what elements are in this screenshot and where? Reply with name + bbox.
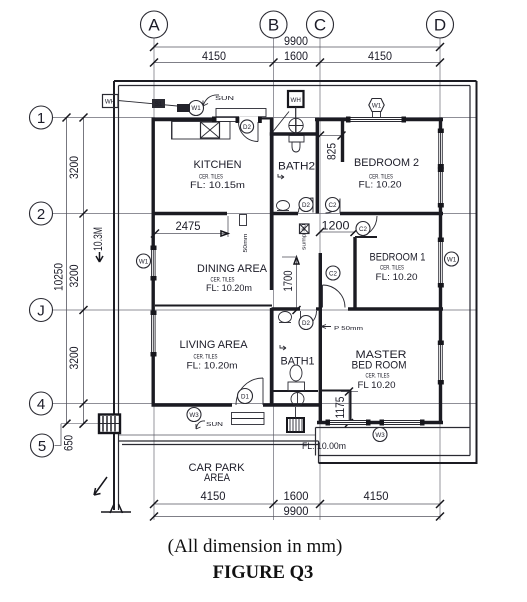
- grid bubble 2: [30, 202, 53, 225]
- wall stub bedroom1 top: [355, 236, 377, 238]
- master terrace slab edge: [316, 427, 471, 429]
- leader diagonal at bath2 recess: [271, 112, 289, 135]
- door D1 living entrance with arc: [236, 378, 263, 405]
- svg-text:CER. TILES: CER. TILES: [194, 354, 218, 361]
- bath1 floor drain circle: [291, 393, 304, 406]
- svg-text:5: 5: [38, 438, 46, 455]
- wall bath2 recessed top: [270, 132, 319, 135]
- svg-text:W3: W3: [189, 412, 199, 419]
- dimension line bottom 9900: [154, 516, 440, 518]
- svg-text:C2: C2: [329, 271, 337, 278]
- svg-text:W1: W1: [191, 105, 201, 112]
- svg-text:S1: S1: [155, 101, 163, 108]
- pipe label P 50mm with arrow: [321, 325, 363, 333]
- wall grid 2 kitchen bottom: [152, 212, 228, 215]
- svg-text:BEDROOM 1: BEDROOM 1: [370, 252, 426, 264]
- beam line dining/living: [155, 305, 272, 307]
- room KITCHEN: [190, 159, 245, 191]
- wall grid J bath1 top with door gap: [272, 307, 301, 310]
- outer boundary right double line: [476, 81, 478, 463]
- svg-text:W1: W1: [139, 259, 149, 266]
- room DINING AREA: [197, 263, 268, 294]
- svg-text:825: 825: [327, 143, 339, 160]
- wall grid 2 bedroom2 bottom: [340, 212, 443, 215]
- window kitchen top wall with sill: [216, 109, 266, 123]
- svg-text:SUN: SUN: [206, 422, 224, 428]
- window tag W3 car porch: [187, 408, 201, 422]
- room BEDROOM 1: [370, 252, 426, 284]
- svg-text:4150: 4150: [364, 489, 389, 503]
- svg-text:W3: W3: [375, 432, 385, 439]
- window master right wall: [438, 345, 443, 380]
- bath2 heater circle: [289, 118, 303, 132]
- outer boundary bottom-right double line: [319, 462, 478, 464]
- svg-text:10250: 10250: [54, 263, 66, 291]
- SUN label bottom with arrow: [196, 421, 224, 429]
- window bedroom1 right wall: [438, 242, 443, 283]
- svg-text:B: B: [268, 16, 279, 35]
- svg-text:P 50mm: P 50mm: [334, 326, 363, 332]
- svg-text:LIVING AREA: LIVING AREA: [180, 339, 249, 351]
- kitchen sink tag circle W1: [189, 101, 204, 116]
- svg-text:DINING AREA: DINING AREA: [197, 263, 268, 275]
- grid line J horizontal: [53, 309, 476, 311]
- wall grid C vertical: [316, 119, 319, 214]
- svg-text:sump 40: sump 40: [302, 224, 308, 250]
- door C2 bedroom2 with arc: [326, 198, 341, 214]
- window tag W3 master terrace: [373, 428, 387, 442]
- svg-text:1175: 1175: [335, 397, 347, 419]
- window tag W1 bedroom1 right: [445, 252, 459, 266]
- window bedroom2 right wall lower: [438, 172, 443, 203]
- svg-text:FL: 10.20m: FL: 10.20m: [206, 283, 252, 294]
- svg-text:1600: 1600: [284, 49, 308, 63]
- svg-text:(All dimension in mm): (All dimension in mm): [168, 536, 343, 557]
- svg-text:SUN: SUN: [215, 96, 235, 102]
- wall stub bedroom2 wardrobe: [341, 119, 344, 162]
- outer boundary left double line with driveway extension: [113, 81, 115, 510]
- WH1 box bath2 top: [288, 91, 304, 134]
- svg-text:FL: 10.20: FL: 10.20: [359, 180, 402, 191]
- door D2 bath2 with arc: [299, 198, 314, 213]
- svg-text:WH: WH: [105, 99, 115, 106]
- grid line 4 horizontal: [53, 403, 476, 405]
- pipe symbol dining 50mm: [240, 215, 250, 253]
- svg-text:BATH2: BATH2: [278, 161, 315, 173]
- water heater hatched box left: [99, 415, 120, 434]
- wall master niche: [321, 390, 351, 392]
- svg-text:KITCHEN: KITCHEN: [194, 159, 242, 171]
- wall bath1 bottom recess: [272, 390, 318, 392]
- svg-text:J: J: [37, 303, 45, 320]
- grid line D vertical: [439, 38, 441, 520]
- junction box mark: [177, 104, 190, 112]
- grid line C vertical: [319, 38, 321, 520]
- wall left grid A: [151, 118, 154, 407]
- svg-text:650: 650: [64, 435, 76, 451]
- wall building top right part: [315, 118, 443, 121]
- S1 label: [152, 99, 165, 108]
- door C2 bedroom1 with arc: [356, 216, 378, 238]
- grid bubble D: [427, 11, 454, 38]
- dimension line bottom 4150/1600/4150: [154, 503, 440, 505]
- entrance step: [232, 413, 265, 425]
- svg-text:CER. TILES: CER. TILES: [366, 373, 390, 380]
- dimension line top 4150/1600/4150: [154, 62, 440, 64]
- car porch step vertical: [315, 428, 317, 456]
- svg-text:4150: 4150: [368, 49, 392, 63]
- bath1 wash basin: [279, 312, 292, 323]
- grid line B vertical: [273, 38, 275, 520]
- door D2 kitchen with arc: [236, 116, 262, 141]
- bath1 direction arrow: [280, 345, 286, 350]
- window bedroom2 top wall: [350, 117, 402, 122]
- window jamb blocks: [151, 117, 444, 426]
- grid line 2 horizontal: [53, 213, 476, 215]
- svg-text:D2: D2: [243, 124, 251, 131]
- svg-text:C2: C2: [329, 202, 337, 209]
- room CAR PARK AREA: [189, 462, 246, 484]
- grid bubble C: [307, 11, 334, 38]
- svg-text:FL: 10.15m: FL: 10.15m: [190, 180, 245, 191]
- svg-text:BEDROOM 2: BEDROOM 2: [354, 157, 419, 169]
- room MASTER BEDROOM: [352, 349, 407, 391]
- svg-text:2: 2: [37, 206, 45, 223]
- floor trap corridor: [300, 224, 310, 234]
- outer boundary top double line: [114, 80, 477, 82]
- bath2 corner basin bottom-left: [277, 201, 290, 211]
- grid bubble A: [141, 11, 168, 38]
- bath1 WC toilet: [288, 365, 305, 391]
- svg-text:3200: 3200: [69, 156, 81, 179]
- svg-text:AREA: AREA: [204, 472, 231, 484]
- svg-text:D2: D2: [302, 320, 310, 327]
- svg-text:4150: 4150: [201, 489, 226, 503]
- svg-text:BED ROOM: BED ROOM: [352, 360, 407, 372]
- svg-text:C2: C2: [359, 226, 367, 233]
- wall bottom living (grid 4) with entrance gap: [152, 403, 233, 406]
- wall grid 2 bath2 bottom with door gap: [272, 212, 299, 215]
- grid bubble 1: [30, 106, 53, 129]
- wall bottom master bedroom: [317, 421, 443, 424]
- kitchen sink box with X: [201, 122, 220, 138]
- kitchen counter: [172, 122, 231, 140]
- window tag W1 bedroom2 top: [369, 99, 384, 118]
- wall grid B vertical: [270, 118, 273, 214]
- svg-text:D1: D1: [241, 394, 249, 401]
- WH box top-left: [103, 95, 119, 108]
- grid line 1 horizontal: [53, 117, 476, 119]
- svg-text:FIGURE Q3: FIGURE Q3: [213, 562, 314, 583]
- dimension 825 bedroom2: [321, 135, 342, 137]
- svg-text:2475: 2475: [176, 219, 201, 233]
- wall bedroom1 left: [353, 237, 356, 309]
- svg-text:9900: 9900: [284, 504, 309, 518]
- car porch edge double line left portion: [119, 440, 319, 442]
- grid bubble J: [30, 299, 53, 322]
- wall right grid D: [439, 118, 442, 425]
- svg-text:9900: 9900: [284, 34, 308, 48]
- grid bubble 5: [31, 424, 62, 457]
- svg-text:10.3M: 10.3M: [93, 227, 105, 251]
- svg-text:CER. TILES: CER. TILES: [380, 265, 404, 272]
- svg-text:1600: 1600: [284, 489, 309, 503]
- svg-text:BATH1: BATH1: [281, 356, 315, 368]
- svg-text:FL 10.20: FL 10.20: [358, 380, 396, 391]
- wall building top left part: [152, 118, 240, 121]
- SUN label top with arrow: [203, 95, 235, 106]
- window dining left wall: [151, 250, 156, 276]
- door D2 bath1 with arc: [299, 311, 317, 330]
- svg-text:FL: 10.20: FL: 10.20: [376, 272, 418, 283]
- svg-text:1: 1: [37, 110, 45, 127]
- svg-text:4150: 4150: [202, 49, 226, 63]
- window tag W1 dining left: [137, 254, 151, 268]
- grid bubble B: [260, 11, 287, 38]
- svg-text:FL: 10.20m: FL: 10.20m: [187, 361, 238, 372]
- svg-text:1200: 1200: [322, 219, 350, 233]
- window master bottom wall left: [330, 420, 366, 425]
- svg-text:C: C: [314, 16, 326, 35]
- svg-text:D: D: [434, 16, 446, 35]
- grid line A vertical: [153, 38, 155, 520]
- svg-text:1700: 1700: [283, 271, 295, 292]
- bath1 water heater hatched box: [287, 407, 304, 432]
- leader line from WH to sink: [118, 101, 188, 108]
- dimension line left 10250: [66, 118, 68, 424]
- svg-text:50mm: 50mm: [243, 234, 249, 253]
- svg-text:4: 4: [37, 396, 45, 413]
- dimension line top 9900: [154, 46, 440, 48]
- svg-text:3200: 3200: [69, 265, 81, 288]
- svg-text:WH: WH: [291, 97, 301, 104]
- dimension line left 3200/3200/3200/650: [83, 118, 85, 424]
- room BEDROOM 2: [354, 157, 419, 191]
- grid bubble 4: [30, 392, 53, 415]
- room LIVING AREA: [180, 339, 249, 372]
- window master bottom wall right: [384, 420, 420, 425]
- svg-text:W1: W1: [372, 103, 382, 110]
- room BATH2: [278, 161, 315, 180]
- svg-text:W1: W1: [447, 257, 457, 264]
- driveway slope arrow: [94, 477, 107, 495]
- bath2 WC toilet: [289, 136, 304, 153]
- window living left wall: [151, 315, 156, 352]
- window bedroom2 right wall upper: [438, 133, 443, 164]
- wall grid J bedroom1 bottom / master top: [348, 307, 443, 310]
- svg-text:D2: D2: [302, 202, 310, 209]
- grid line 5 horizontal: [61, 423, 120, 425]
- driveway end crossbar and arrows: [101, 511, 131, 513]
- door C2 master with arc: [323, 266, 346, 308]
- svg-text:3200: 3200: [69, 347, 81, 370]
- svg-text:FL: 10.00m: FL: 10.00m: [302, 441, 346, 452]
- svg-text:A: A: [148, 16, 160, 35]
